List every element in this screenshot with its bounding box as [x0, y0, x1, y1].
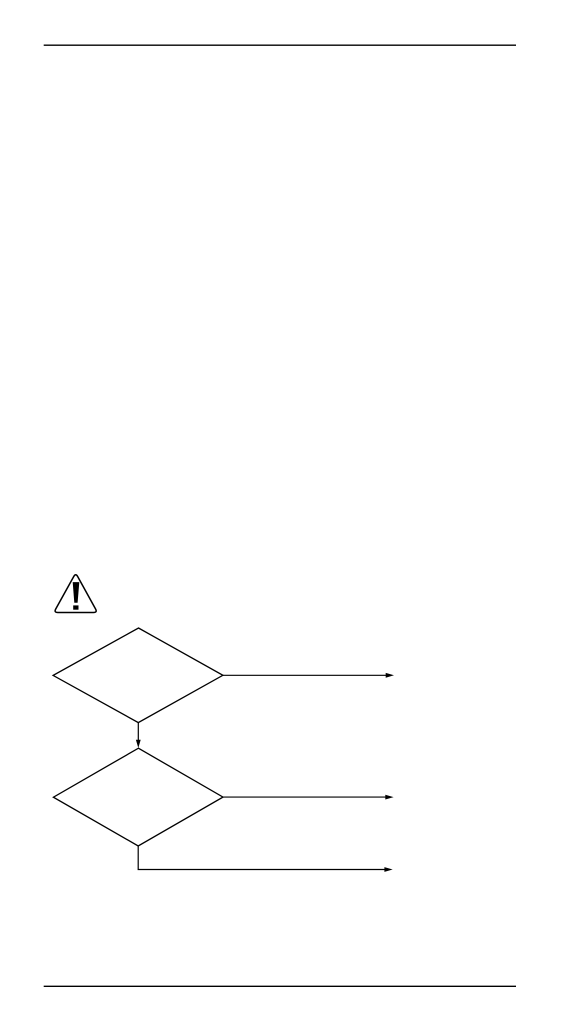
arrow from diamond 2 right vertex: [223, 795, 394, 800]
warning triangle icon: [55, 575, 96, 613]
arrow from diamond 1 right vertex: [223, 673, 394, 678]
top header rule: [44, 44, 516, 46]
diamond 1: [53, 628, 223, 723]
diamond 2: [53, 748, 223, 846]
vertical arrow diamond1 -> diamond2: [136, 723, 141, 748]
elbow arrow from diamond 2 bottom vertex: [138, 846, 393, 872]
exclamation mark: [73, 582, 80, 603]
bottom footer rule: [44, 985, 516, 987]
